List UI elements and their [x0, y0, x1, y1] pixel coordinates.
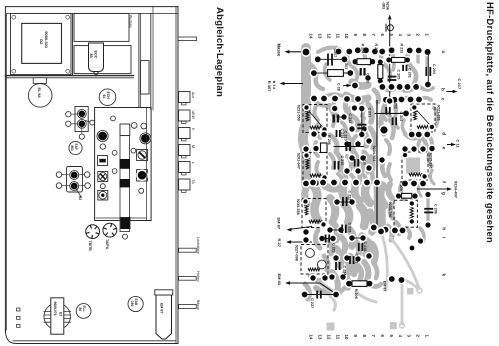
svg-text:81: 81 — [102, 95, 106, 99]
svg-text:80: 80 — [78, 308, 82, 312]
capacitor C201 — [402, 65, 404, 71]
trimmer wheel TB/TB — [86, 225, 100, 239]
Wechsler box — [74, 13, 129, 41]
frame lines — [72, 13, 74, 75]
svg-text:R 231: R 231 — [374, 44, 378, 54]
svg-text:13: 13 — [317, 335, 322, 340]
ECC 85 sub-box — [74, 46, 131, 74]
button TA — [179, 179, 190, 190]
svg-text:R 27: R 27 — [277, 239, 282, 248]
svg-text:C 215: C 215 — [363, 242, 367, 252]
button K — [179, 128, 190, 139]
svg-text:C 217: C 217 — [457, 79, 462, 90]
IF can 9221-331 — [411, 104, 435, 132]
capacitor C206 — [424, 208, 433, 210]
svg-text:85: 85 — [89, 54, 93, 58]
right column parts — [140, 133, 152, 145]
svg-text:C 227: C 227 — [310, 298, 314, 308]
capacitor C210 — [336, 130, 338, 137]
capacitor C207 — [318, 58, 345, 60]
capacitor C212 — [333, 115, 335, 123]
svg-text:C 204: C 204 — [432, 64, 436, 75]
button UKW — [179, 110, 190, 121]
tube ECC 85 — [89, 43, 104, 72]
resistor R231 vertical — [379, 62, 381, 81]
resistor R204 — [355, 61, 372, 63]
tube ECH 81 — [99, 89, 116, 106]
svg-text:C 213: C 213 — [365, 73, 369, 83]
svg-text:D2: D2 — [39, 39, 44, 45]
svg-text:12: 12 — [326, 34, 331, 39]
svg-text:EM 83: EM 83 — [277, 274, 282, 286]
PCB mounting box in chassis — [95, 108, 152, 221]
svg-text:C 206: C 206 — [433, 204, 437, 214]
resistor R209 — [402, 193, 412, 198]
svg-text:EM 87: EM 87 — [277, 218, 282, 230]
tube EL 84 — [33, 78, 46, 84]
svg-text:L: L — [191, 162, 195, 164]
svg-text:TB/TB: TB/TB — [88, 241, 92, 252]
capacitor C224 — [335, 262, 337, 270]
svg-text:R 209: R 209 — [399, 181, 403, 191]
svg-text:9234-407: 9234-407 — [453, 181, 458, 199]
capacitor C213 — [360, 68, 362, 76]
svg-text:11: 11 — [335, 335, 340, 340]
svg-text:C 11: C 11 — [456, 140, 461, 149]
svg-text:C 216: C 216 — [340, 156, 344, 166]
resistor X303 — [314, 72, 350, 74]
svg-text:9221-331: 9221-331 — [436, 105, 440, 121]
column symbols — [97, 130, 109, 142]
svg-text:C 222: C 222 — [331, 243, 335, 253]
terminal strip B R2 — [67, 167, 83, 193]
IF strip column — [120, 124, 130, 136]
jumper wire — [375, 112, 407, 114]
svg-text:13: 13 — [317, 34, 322, 39]
shaft Hoehen — [179, 276, 197, 280]
IF can 9235-261 — [402, 152, 428, 180]
svg-text:TA: TA — [191, 180, 195, 185]
svg-text:EM 87: EM 87 — [160, 303, 164, 313]
capacitor C221 — [337, 201, 352, 203]
svg-text:9080-301: 9080-301 — [44, 31, 49, 49]
svg-text:TA/PU: TA/PU — [105, 239, 109, 250]
line 9234-561 — [376, 100, 378, 226]
svg-text:Masse: Masse — [276, 44, 281, 57]
svg-text:C 212: C 212 — [348, 114, 352, 124]
svg-text:R 206: R 206 — [327, 135, 331, 145]
IF can 9235-556 — [302, 199, 326, 228]
antenna coil symbol — [387, 25, 393, 31]
svg-text:9234-561: 9234-561 — [372, 146, 376, 162]
svg-text:9235-261: 9235-261 — [428, 153, 432, 169]
capacitor C205 — [388, 76, 397, 78]
svg-text:R 307: R 307 — [267, 81, 272, 92]
svg-text:R 232: R 232 — [400, 44, 404, 54]
svg-text:C 219: C 219 — [362, 156, 366, 166]
capacitor C203 — [392, 117, 394, 125]
svg-text:Lautstärke: Lautstärke — [196, 237, 200, 254]
svg-text:Aus: Aus — [191, 92, 195, 98]
power transformer 9080-301 D2 — [11, 13, 72, 74]
capacitor C202 — [385, 107, 387, 115]
svg-text:a: a — [441, 51, 446, 54]
svg-text:EL 84: EL 84 — [37, 88, 41, 99]
capacitor C225 — [330, 229, 341, 231]
resistor R208 — [349, 283, 370, 285]
IF can 9235-750 — [394, 200, 417, 227]
svg-text:C 225: C 225 — [347, 223, 351, 233]
svg-text:C 231: C 231 — [367, 108, 371, 118]
svg-text:11: 11 — [335, 34, 340, 39]
shaft Lautstaerke — [179, 248, 197, 252]
svg-text:9235-556: 9235-556 — [296, 199, 300, 215]
svg-text:M: M — [191, 145, 195, 148]
svg-text:9231-550: 9231-550 — [297, 105, 301, 121]
trimmer wheel TA/PU — [103, 223, 117, 237]
svg-text:9201-647: 9201-647 — [297, 153, 301, 169]
capacitor C220 — [354, 159, 356, 167]
svg-text:g: g — [441, 192, 446, 195]
svg-text:C 28: C 28 — [337, 83, 341, 91]
connector marks — [17, 308, 20, 311]
capacitor C214 — [334, 146, 365, 148]
solder pads — [301, 47, 311, 57]
svg-text:Wechsler: Wechsler — [129, 15, 133, 29]
svg-text:10: 10 — [344, 34, 349, 39]
button M — [179, 145, 190, 156]
button Aus — [179, 92, 190, 103]
arrow b to C217 — [447, 91, 457, 93]
svg-text:C 205: C 205 — [396, 70, 400, 80]
shaft Baesse — [179, 304, 197, 308]
button L — [179, 162, 190, 173]
svg-text:9235-750: 9235-750 — [388, 202, 392, 218]
svg-text:c: c — [441, 98, 446, 101]
capacitor C209 vertical — [361, 110, 363, 133]
IF can 9231-550 — [303, 105, 327, 133]
svg-text:C207: C207 — [333, 49, 337, 58]
tube ELL 80 — [76, 304, 91, 319]
svg-text:801: 801 — [70, 146, 74, 152]
svg-text:C 223: C 223 — [354, 254, 358, 264]
svg-text:C 202: C 202 — [393, 99, 397, 109]
output transformer 9668-076 — [44, 303, 70, 329]
svg-text:X 303: X 303 — [344, 60, 348, 70]
resistor R206 — [321, 143, 328, 153]
capacitor C227 — [305, 294, 336, 296]
svg-text:Abgleich-Lageplan: Abgleich-Lageplan — [214, 7, 225, 97]
resistor R232 — [389, 59, 408, 61]
svg-text:HF-Druckplatte, auf die Bestüc: HF-Druckplatte, auf die Bestückungsseite… — [485, 2, 495, 243]
svg-text:C 214: C 214 — [340, 129, 344, 140]
svg-text:R2: R2 — [78, 196, 82, 200]
svg-text:d: d — [441, 132, 446, 135]
IF can 9201-647 — [303, 153, 327, 181]
IF can 9227-098 — [301, 245, 328, 275]
svg-text:14: 14 — [309, 335, 314, 340]
svg-text:C 221: C 221 — [347, 191, 351, 201]
capacitor C222 — [322, 238, 333, 240]
svg-text:h: h — [441, 227, 446, 230]
capacitor C223 — [349, 256, 351, 264]
svg-text:e: e — [441, 147, 446, 150]
capacitor C204 — [427, 52, 429, 85]
terminal strip A — [75, 107, 88, 132]
chassis outline — [5, 6, 178, 8]
svg-text:14: 14 — [309, 34, 314, 39]
svg-text:E3: E3 — [58, 312, 62, 316]
svg-text:C 201: C 201 — [407, 68, 411, 78]
capacitor C216 — [334, 161, 336, 170]
svg-text:R 208: R 208 — [354, 289, 358, 299]
svg-text:C 224: C 224 — [342, 266, 346, 277]
svg-text:EM 87: EM 87 — [382, 281, 386, 292]
tube EABC 80 — [128, 296, 143, 311]
shaft tab — [178, 37, 197, 41]
svg-text:9227-098: 9227-098 — [294, 245, 298, 261]
arrow d to C11 — [447, 144, 455, 146]
svg-text:Bässe: Bässe — [196, 300, 200, 310]
PCB copper traces (gray) — [303, 48, 306, 184]
svg-text:Höhen: Höhen — [196, 271, 200, 282]
capacitor C215 — [352, 237, 363, 239]
svg-text:10: 10 — [344, 335, 349, 340]
svg-text:b: b — [441, 88, 446, 91]
svg-text:C80: C80 — [130, 301, 134, 307]
svg-text:UKW: UKW — [191, 111, 195, 120]
svg-text:R 204: R 204 — [361, 44, 365, 55]
tube EAF 801 — [69, 141, 82, 154]
divider line — [5, 75, 133, 77]
svg-text:12: 12 — [326, 335, 331, 340]
svg-text:9668-076: 9668-076 — [53, 302, 57, 316]
svg-text:i: i — [441, 237, 446, 238]
arrow g to 9234-407 — [417, 188, 451, 190]
tube EM 87 indicator — [156, 295, 172, 339]
svg-text:-383: -383 — [381, 2, 385, 10]
svg-text:k: k — [441, 274, 446, 277]
